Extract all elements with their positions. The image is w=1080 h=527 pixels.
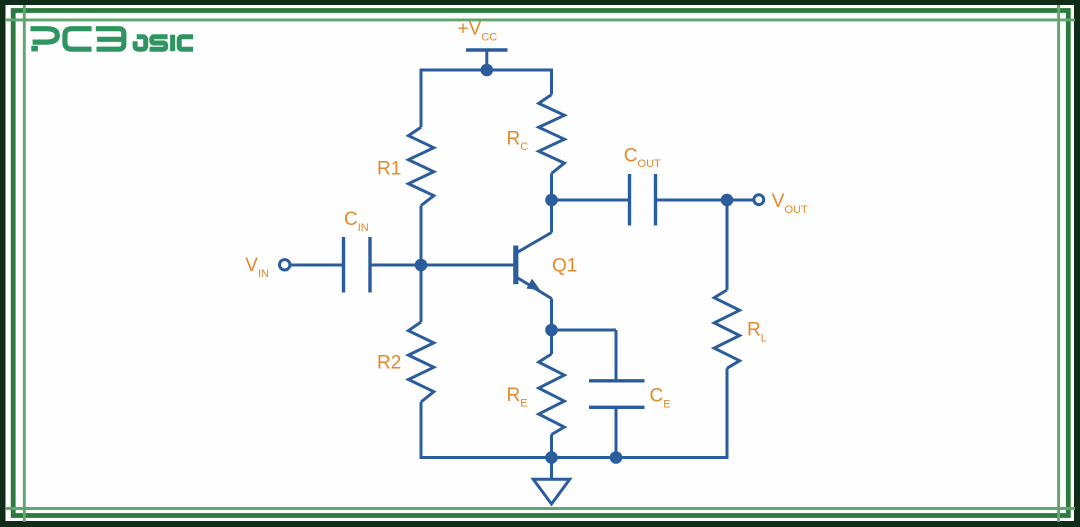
wire base node to transistor base xyxy=(421,264,514,267)
wire RL to ground rail xyxy=(726,368,729,457)
wire output node to terminal xyxy=(727,199,754,202)
wire RC to collector node xyxy=(550,174,553,201)
terminal VIN circle xyxy=(280,260,290,270)
resistor R2 xyxy=(408,322,433,402)
ground symbol xyxy=(533,479,569,504)
wire left branch top xyxy=(420,70,423,127)
capacitor COUT xyxy=(630,174,656,226)
node ground junction 2 xyxy=(610,451,623,464)
transistor Q1 xyxy=(516,200,552,330)
resistor R1 xyxy=(408,127,433,205)
power +VCC supply bar xyxy=(466,50,508,70)
wire ground stub xyxy=(550,458,553,480)
wire RE to ground rail xyxy=(550,435,553,458)
capacitor CE xyxy=(589,381,645,408)
wire CE top xyxy=(615,330,618,381)
wire CIN to base node xyxy=(370,264,421,267)
resistor RE xyxy=(539,354,565,435)
wire RC top xyxy=(550,70,553,95)
logo PCBasic xyxy=(31,29,194,52)
wire collector node to COUT xyxy=(552,199,630,202)
wire emitter node to CE xyxy=(552,329,617,332)
svg-text:Q1: Q1 xyxy=(552,255,577,276)
wire base node to R2 xyxy=(420,265,423,322)
capacitor CIN xyxy=(344,237,371,293)
wire R1 to base node xyxy=(420,206,423,265)
wire R2 to ground rail xyxy=(420,402,423,458)
wire ground rail xyxy=(421,456,727,459)
wire COUT to output node xyxy=(656,199,728,202)
svg-text:R1: R1 xyxy=(377,158,401,179)
wire top rail xyxy=(421,69,552,72)
resistor RL xyxy=(714,290,739,368)
svg-text:R2: R2 xyxy=(377,353,401,374)
node emitter junction xyxy=(545,324,558,337)
wire output node to RL xyxy=(726,200,729,290)
node output junction xyxy=(721,194,734,207)
wire CE bottom xyxy=(615,407,618,457)
node collector junction xyxy=(545,194,558,207)
wire input terminal to CIN xyxy=(291,264,344,267)
node ground junction 1 xyxy=(545,451,558,464)
node base junction xyxy=(415,259,428,272)
node VCC junction xyxy=(481,64,494,77)
terminal VOUT circle xyxy=(754,195,764,205)
resistor RC xyxy=(539,95,565,174)
wire emitter node to RE xyxy=(550,330,553,354)
